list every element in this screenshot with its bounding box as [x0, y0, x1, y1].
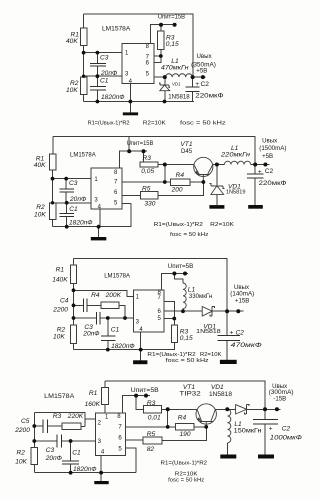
svg-text:-15В: -15В [273, 395, 286, 402]
svg-text:Uпит=15В: Uпит=15В [127, 140, 154, 147]
svg-text:160K: 160K [85, 401, 101, 408]
svg-text:R1=(Uвых-1)*R2: R1=(Uвых-1)*R2 [161, 460, 208, 466]
svg-text:1N5819: 1N5819 [226, 190, 246, 196]
svg-text:200: 200 [171, 186, 183, 193]
svg-text:Uпит=5В: Uпит=5В [168, 263, 194, 270]
svg-text:VD1: VD1 [172, 82, 181, 87]
svg-text:+5В: +5В [262, 153, 273, 160]
svg-text:150мкГн: 150мкГн [234, 428, 262, 435]
svg-text:+15В: +15В [235, 298, 249, 305]
svg-text:R2: R2 [36, 204, 45, 211]
svg-text:fosc = 50 kHz: fosc = 50 kHz [170, 232, 208, 238]
svg-text:C2: C2 [265, 168, 274, 175]
svg-text:C1: C1 [100, 77, 109, 84]
svg-text:R1=(Uвых-1)*R2: R1=(Uвых-1)*R2 [88, 120, 130, 126]
svg-text:10K: 10K [15, 459, 27, 466]
svg-text:10K: 10K [34, 211, 46, 218]
svg-text:C2: C2 [201, 81, 210, 88]
svg-text:C3: C3 [69, 180, 78, 187]
svg-text:R1=(Uвых-1)*R2: R1=(Uвых-1)*R2 [154, 222, 203, 228]
svg-text:1N5818: 1N5818 [168, 94, 190, 101]
svg-text:C5: C5 [21, 418, 30, 425]
svg-text:Uпит=15В: Uпит=15В [158, 13, 185, 20]
svg-text:0,15: 0,15 [166, 41, 179, 48]
svg-text:R5: R5 [142, 186, 151, 193]
svg-text:470мкГн: 470мкГн [161, 65, 189, 72]
svg-text:20пФ: 20пФ [100, 70, 117, 77]
svg-text:fosc = 50 kHz: fosc = 50 kHz [168, 477, 204, 483]
svg-text:1N5818: 1N5818 [209, 391, 233, 398]
svg-text:VT1: VT1 [180, 141, 192, 148]
svg-text:fosc = 50 kHz: fosc = 50 kHz [180, 120, 226, 126]
svg-text:330: 330 [144, 200, 155, 207]
svg-text:20пФ: 20пФ [69, 196, 86, 203]
svg-text:D45: D45 [181, 148, 193, 155]
svg-text:R2=10K: R2=10K [210, 222, 234, 228]
svg-text:2200: 2200 [14, 427, 30, 434]
svg-text:(1500mA): (1500mA) [259, 145, 286, 152]
svg-text:R4: R4 [176, 172, 185, 179]
svg-text:C2: C2 [282, 425, 291, 432]
svg-text:10K: 10K [53, 334, 65, 341]
svg-text:2200: 2200 [52, 307, 68, 314]
svg-text:1820пФ: 1820пФ [69, 220, 93, 227]
svg-text:10K: 10K [66, 87, 78, 94]
svg-text:20пФ: 20пФ [82, 331, 99, 338]
svg-text:Uвых: Uвых [262, 138, 277, 145]
svg-text:R3: R3 [53, 413, 62, 420]
svg-text:R1=(Uвых-1)*R2: R1=(Uвых-1)*R2 [147, 352, 195, 358]
svg-text:40K: 40K [66, 38, 78, 45]
svg-text:1820пФ: 1820пФ [111, 343, 135, 350]
svg-text:470мкФ: 470мкФ [231, 342, 262, 349]
svg-text:1N5818: 1N5818 [196, 329, 221, 335]
svg-text:R1: R1 [89, 390, 98, 397]
svg-text:C1: C1 [72, 450, 81, 457]
svg-text:C1: C1 [111, 327, 120, 334]
svg-text:0,15: 0,15 [180, 335, 193, 342]
svg-text:C2: C2 [236, 329, 245, 336]
svg-text:+: + [230, 329, 234, 336]
svg-text:fosc = 50 kHz: fosc = 50 kHz [166, 358, 209, 364]
svg-text:LM1578A: LM1578A [70, 152, 96, 159]
svg-text:C4: C4 [60, 298, 69, 305]
svg-text:C1: C1 [69, 206, 78, 213]
svg-text:C3: C3 [100, 55, 109, 62]
svg-text:330мкГн: 330мкГн [189, 293, 212, 300]
svg-text:R4: R4 [178, 415, 187, 422]
svg-text:220K: 220K [67, 413, 84, 420]
svg-text:40K: 40K [34, 162, 46, 169]
svg-text:Uвых: Uвых [197, 53, 212, 60]
svg-text:R3: R3 [143, 155, 152, 162]
svg-text:(140mA): (140mA) [230, 290, 254, 297]
svg-text:R3: R3 [147, 400, 156, 407]
svg-text:+: + [269, 425, 273, 432]
svg-text:LM1578A: LM1578A [104, 273, 130, 280]
svg-text:R2: R2 [17, 450, 26, 457]
svg-text:C3: C3 [46, 447, 55, 454]
svg-text:1000мкФ: 1000мкФ [270, 435, 302, 442]
svg-text:LM1578A: LM1578A [102, 26, 131, 33]
svg-text:220мкФ: 220мкФ [259, 180, 287, 187]
svg-text:+: + [195, 81, 199, 88]
svg-text:R1: R1 [56, 267, 65, 274]
svg-text:200K: 200K [105, 292, 122, 299]
svg-text:1820пФ: 1820пФ [101, 94, 125, 101]
svg-text:20пФ: 20пФ [45, 455, 62, 462]
svg-text:0,01: 0,01 [148, 414, 161, 421]
svg-text:TIP32: TIP32 [179, 391, 201, 398]
svg-text:R2=10K: R2=10K [143, 120, 166, 126]
svg-text:+: + [258, 168, 262, 175]
svg-text:Uпит=5В: Uпит=5В [131, 387, 159, 394]
svg-text:220мкГн: 220мкГн [220, 152, 251, 159]
svg-text:0,05: 0,05 [141, 168, 154, 175]
svg-text:82: 82 [147, 446, 155, 453]
svg-text:VD1: VD1 [211, 384, 224, 391]
svg-text:140K: 140K [52, 277, 68, 284]
svg-text:1820пФ: 1820пФ [73, 466, 97, 473]
svg-text:R2: R2 [57, 327, 66, 334]
svg-text:R2=10K: R2=10K [200, 352, 221, 358]
svg-text:+5В: +5В [196, 68, 207, 75]
svg-text:LM1578A: LM1578A [44, 393, 75, 400]
svg-text:R5: R5 [147, 431, 156, 438]
svg-text:190: 190 [180, 431, 191, 438]
svg-text:R4: R4 [91, 292, 100, 299]
svg-text:220мкФ: 220мкФ [195, 92, 223, 99]
